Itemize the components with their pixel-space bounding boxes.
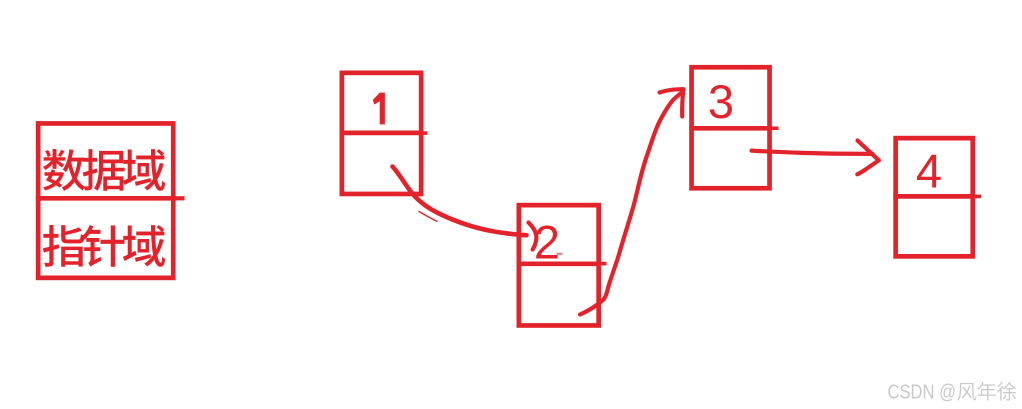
arrow from node3 pointer to node4 [752, 141, 879, 175]
node box 3 [689, 67, 772, 188]
svg-text:3: 3 [708, 75, 734, 128]
svg-text:CSDN @: CSDN @ [888, 380, 957, 403]
node box 1 [340, 73, 424, 194]
node1 value 1 [373, 93, 385, 125]
arrow from node2 pointer to node3 [580, 89, 684, 314]
node1 nub right of divider [423, 131, 427, 135]
legend box (data/pointer fields) [36, 123, 176, 277]
label 指针域 (pointer field) [43, 225, 165, 267]
legend nub right of divider [175, 196, 185, 200]
node2 nub right of divider [600, 262, 607, 266]
watermark 风年徐 [957, 382, 1016, 401]
node3 nub right of divider [771, 127, 779, 131]
node box 4 [893, 138, 975, 256]
small pen dash right of value 2 [557, 253, 563, 255]
node4 nub right of divider [975, 195, 982, 199]
label 数据域 (data field) [43, 149, 165, 191]
svg-text:4: 4 [916, 144, 942, 197]
node box 2 [517, 205, 602, 325]
arrow from node1 pointer to node2 [393, 167, 537, 250]
